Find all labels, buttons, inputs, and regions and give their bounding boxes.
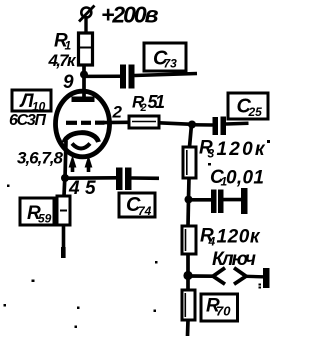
svg-text:25: 25 <box>248 105 263 119</box>
svg-text:3,6,7,8: 3,6,7,8 <box>17 149 64 168</box>
svg-text:+200в: +200в <box>101 2 159 28</box>
svg-text:5: 5 <box>85 178 96 199</box>
svg-text:3: 3 <box>208 147 215 161</box>
svg-text:120к: 120к <box>217 227 261 248</box>
svg-text:51: 51 <box>148 92 166 112</box>
svg-text:4: 4 <box>208 235 216 249</box>
svg-text:0,01: 0,01 <box>226 168 264 189</box>
svg-text:4: 4 <box>68 178 80 199</box>
svg-text:70: 70 <box>216 304 231 319</box>
svg-text:4,7к: 4,7к <box>48 51 77 70</box>
svg-text:74: 74 <box>138 204 152 218</box>
svg-text:2: 2 <box>112 103 123 122</box>
svg-text:Ключ: Ключ <box>212 249 256 270</box>
svg-text:9: 9 <box>63 72 74 93</box>
svg-text:2: 2 <box>140 102 147 114</box>
svg-text:6С3П: 6С3П <box>9 112 46 129</box>
svg-text:59: 59 <box>38 212 52 226</box>
svg-text:73: 73 <box>164 57 178 71</box>
svg-text:120к: 120к <box>217 139 266 160</box>
